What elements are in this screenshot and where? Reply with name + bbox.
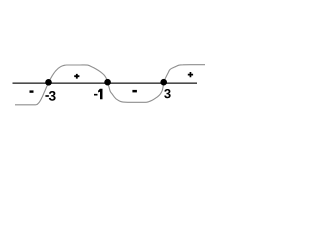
sign curve — [15, 65, 205, 105]
node 3 dot — [160, 79, 167, 86]
minus sign interval (-1,3) — [132, 90, 137, 93]
label -3 hyphen — [45, 95, 48, 97]
label -3 digit 3 — [49, 91, 56, 101]
node -3 dot — [45, 79, 52, 86]
plus sign right interval — [188, 72, 193, 77]
minus sign left interval — [30, 90, 34, 92]
label -1 hyphen — [94, 94, 97, 96]
label -1 digit 1 — [98, 89, 102, 99]
label 3 digit — [164, 89, 170, 98]
number line — [13, 82, 198, 84]
plus sign interval (-3,-1) — [74, 74, 79, 79]
node -1 dot — [104, 79, 111, 86]
